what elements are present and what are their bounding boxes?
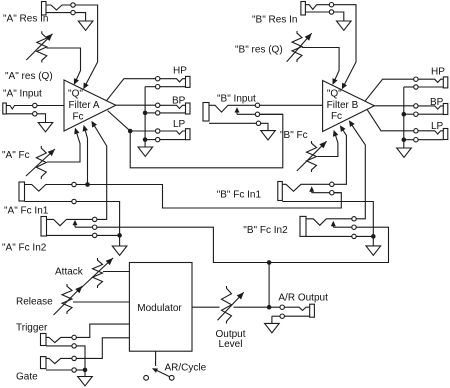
svg-text:Release: Release [16, 297, 53, 308]
svg-text:"B" Fc In2: "B" Fc In2 [243, 225, 288, 236]
label "B" res (Q) [235, 45, 283, 56]
svg-text:HP: HP [431, 67, 445, 78]
node LP sleeve junction [143, 137, 148, 142]
svg-text:Fc: Fc [72, 111, 83, 122]
label Release [16, 297, 53, 308]
wire A LP normal to B Input [130, 114, 283, 168]
label "A" Fc In1 [4, 206, 49, 217]
potentiometer R6 "B" res (Q) [287, 31, 312, 62]
svg-text:Fc: Fc [331, 111, 342, 122]
jack J12 "B" Input [203, 103, 261, 126]
ground [337, 21, 352, 30]
modulator block U3 Modulator [129, 263, 192, 352]
svg-text:"A" Fc In2: "A" Fc In2 [2, 243, 47, 254]
svg-text:"B" res (Q): "B" res (Q) [235, 45, 283, 56]
label BP [172, 95, 186, 106]
svg-text:"A" Res In: "A" Res In [3, 14, 48, 25]
svg-text:Attack: Attack [55, 267, 84, 278]
wire Modulator output [192, 306, 220, 308]
jack J16 B BP out [404, 104, 448, 117]
filter block U1 Filter A [64, 80, 116, 131]
label "B" Res In [252, 15, 297, 26]
svg-text:HP: HP [173, 66, 187, 77]
potentiometer R3 Attack [81, 258, 113, 288]
wire Trigger tip to Modulator [76, 324, 129, 337]
label AR/Cycle [165, 362, 207, 373]
svg-text:BP: BP [172, 95, 186, 106]
wire Filter A LP output [108, 111, 156, 131]
jack J14 "B" Fc In2 [300, 216, 356, 238]
jack J2 "A" Input [3, 103, 37, 116]
svg-text:A/R Output: A/R Output [278, 293, 328, 304]
ground [138, 147, 153, 156]
label Trigger [16, 323, 48, 334]
filter block U2 Filter B [323, 81, 375, 132]
potentiometer R5 Output Level [218, 286, 244, 324]
ground [366, 246, 381, 255]
wire A output jacks sleeve bus [144, 87, 146, 147]
label "A" res (Q) [5, 71, 53, 82]
node B ground junction [371, 234, 376, 239]
wire B Fc In2 tip to Filter B Fc input [349, 120, 365, 219]
jack J1 "A" Res In [42, 2, 76, 16]
jack J15 B HP out [404, 77, 448, 89]
svg-text:"Q": "Q" [68, 89, 83, 100]
label A/R Output [278, 293, 328, 304]
potentiometer R1 "A" res (Q) [26, 31, 52, 62]
svg-text:AR/Cycle: AR/Cycle [165, 362, 207, 373]
wire B Fc In1 tip to Filter B Fc input [334, 125, 346, 184]
wire B Res In sleeve to ground [334, 12, 344, 21]
node B BP sleeve junction [402, 112, 407, 117]
label "B" Fc In1 [217, 190, 262, 201]
wire B Fc In1 normal corner [334, 192, 341, 194]
wire B res pot to Filter B Q input [302, 48, 339, 85]
wire B Input sleeve to ground [261, 123, 268, 130]
wire Filter B LP output [367, 109, 414, 131]
label BP [430, 97, 444, 108]
label HP [173, 66, 187, 77]
label Attack [55, 267, 84, 278]
jack J3 "A" Fc In1 [19, 182, 76, 204]
svg-text:"B" Res In: "B" Res In [252, 15, 297, 26]
node ground junction [117, 233, 122, 238]
potentiometer R2 "A" Fc [26, 146, 55, 179]
wire Output Level to A/R Output jack [234, 306, 281, 308]
label "A" Input [3, 89, 42, 100]
label "B" Input [217, 93, 256, 104]
wire A Res In tip to Filter A Q input [75, 5, 97, 89]
wire A Fc In2 tip to Filter A Fc input [91, 121, 106, 220]
potentiometer R4 Release [54, 284, 83, 315]
label "A" Fc In2 [2, 243, 47, 254]
node A/R output junction [267, 305, 272, 310]
wire Filter A BP output [116, 104, 156, 106]
wire modulator normal chain to Fc In2 jacks [97, 227, 389, 262]
jack J8 Trigger [41, 334, 77, 349]
svg-text:BP: BP [430, 97, 444, 108]
label "A" Fc [2, 150, 30, 161]
label "A" Res In [3, 14, 48, 25]
wire A Fc pot to Filter A Fc input [47, 128, 80, 162]
node BP sleeve junction [143, 111, 148, 116]
ground [78, 377, 93, 386]
node gate ground junction [83, 368, 88, 373]
jack J9 Gate [41, 356, 77, 372]
svg-text:"B" Fc In1: "B" Fc In1 [217, 190, 262, 201]
node A Fc In1 tip junction [85, 182, 90, 187]
ground [112, 246, 127, 255]
wire Filter B BP output [374, 105, 413, 107]
svg-text:"A" res (Q): "A" res (Q) [5, 71, 53, 82]
wire B Input normal from A LP [260, 113, 283, 115]
jack J7 A LP out [145, 129, 190, 142]
wire A Res In sleeve to ground [75, 13, 85, 21]
ground [261, 131, 276, 140]
wire Trigger sleeve to ground bus [76, 346, 85, 377]
svg-text:"B" Input: "B" Input [217, 93, 256, 104]
wire Gate sleeve to ground bus [76, 369, 85, 371]
ground [38, 123, 53, 132]
wire A Fc In2 sleeve to ground [97, 234, 120, 236]
wire Attack pot to Modulator [103, 271, 129, 273]
svg-text:Level: Level [219, 339, 243, 350]
svg-text:Modulator: Modulator [137, 303, 182, 314]
svg-text:"A" Input: "A" Input [3, 89, 42, 100]
wire B Fc pot to Filter B Fc input [318, 130, 339, 157]
wire A res pot to Filter A Q input [47, 48, 81, 85]
jack J6 A BP out [145, 103, 190, 115]
svg-text:Filter A: Filter A [68, 100, 99, 111]
svg-text:Filter B: Filter B [327, 100, 359, 111]
svg-text:Gate: Gate [16, 372, 38, 383]
label Output Level [215, 329, 245, 350]
svg-text:"A" Fc In1: "A" Fc In1 [4, 206, 49, 217]
wire B Fc In2 sleeve junction [356, 235, 373, 237]
wire B Res In tip to Filter B Q input [334, 5, 356, 90]
label "B" Fc [280, 130, 308, 141]
wire A Input tip to Filter A [37, 105, 64, 107]
svg-text:"A" Fc: "A" Fc [2, 150, 30, 161]
svg-text:"Q": "Q" [327, 88, 342, 99]
wire A Fc In1 sleeve to ground [76, 202, 119, 247]
node LP tip junction [128, 129, 133, 134]
wire Gate tip to Modulator [76, 338, 129, 359]
label HP [431, 67, 445, 78]
node modulator output junction [267, 260, 272, 265]
svg-text:LP: LP [173, 119, 186, 130]
ground [78, 21, 93, 30]
wire A/R Output sleeve to ground [271, 316, 273, 323]
jack J11 "B" Res In [301, 2, 334, 16]
label LP [173, 119, 186, 130]
jack J17 B LP out [404, 129, 448, 142]
wire A Input sleeve to ground [37, 114, 46, 123]
wire Filter B HP output [365, 79, 414, 101]
wire A Fc In1 tip to Filter A Fc input [83, 125, 88, 185]
wire B Fc In1 sleeve to ground [282, 202, 373, 246]
jack J13 "B" Fc In1 [278, 182, 334, 201]
jack J4 "A" Fc In2 [41, 217, 97, 238]
node B LP sleeve junction [402, 137, 407, 142]
wire A/R output to modulator normal chain [268, 263, 270, 308]
switch SW1 AR/Cycle [144, 351, 174, 380]
svg-text:"B" Fc: "B" Fc [280, 130, 308, 141]
svg-text:Trigger: Trigger [16, 323, 48, 334]
wire A Fc In1 tip to B Fc In1 normal [76, 185, 341, 209]
ground [265, 323, 280, 332]
ground [397, 148, 412, 157]
wire B output jacks sleeve bus [403, 87, 405, 148]
jack J10 A/R Output [272, 304, 315, 318]
potentiometer R7 "B" Fc [297, 141, 327, 172]
jack J5 A HP out [145, 76, 190, 89]
label "B" Fc In2 [243, 225, 288, 236]
svg-text:LP: LP [431, 121, 444, 132]
wire Filter A HP output [107, 79, 156, 101]
wire Release pot to Modulator [73, 301, 129, 303]
label LP [431, 121, 444, 132]
wire B Input tip to Filter B [260, 104, 323, 106]
label Gate [16, 372, 38, 383]
